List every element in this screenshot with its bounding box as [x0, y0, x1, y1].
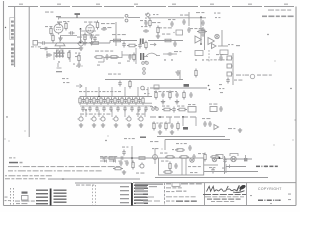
capacitor C17	[141, 26, 149, 33]
ot winding rows	[134, 185, 148, 205]
heater wire	[75, 182, 132, 184]
capacitor C6 bypass	[90, 34, 93, 40]
tone stack chain	[79, 96, 144, 105]
trimmer VR2	[215, 34, 219, 38]
node HT2	[200, 16, 202, 18]
component blob x245	[244, 155, 247, 161]
tube V1a	[54, 22, 63, 35]
text VR2	[214, 13, 220, 19]
cluster treble peaker resistor R7	[127, 44, 137, 47]
bypass switch arc	[144, 53, 160, 56]
row2 small marks	[81, 61, 130, 67]
output transformer bar	[131, 183, 133, 206]
wire main signal row1b	[110, 41, 137, 44]
Marshall logo script	[207, 184, 247, 192]
text above C9	[180, 15, 188, 16]
tube V1b	[86, 23, 94, 35]
capacitor C23 pi	[119, 156, 125, 159]
text mid labels	[112, 34, 126, 35]
text bias	[136, 173, 144, 174]
resistor R5 cathode V1b	[84, 33, 86, 42]
wire U1 out	[218, 45, 228, 47]
sheet outer border left edge	[3, 1, 5, 206]
text cluster x166	[162, 34, 170, 35]
revision box	[10, 18, 15, 40]
wire lower speaker	[226, 166, 246, 168]
field rows left	[135, 184, 163, 205]
capacitor C20 reservoir	[119, 160, 123, 166]
tone stack caps	[82, 97, 141, 103]
field small box	[172, 183, 180, 187]
cluster row2 x95-120	[94, 54, 119, 60]
op-amp U1a triangle	[195, 36, 201, 43]
pa caps	[169, 162, 178, 171]
text To PCB	[256, 166, 278, 168]
resistor R11 on bus	[129, 80, 131, 89]
resistor chain x158	[156, 26, 160, 39]
relay box K2	[173, 30, 182, 35]
capacitor C25 pa out	[223, 158, 226, 164]
field text mid row4	[166, 196, 196, 197]
tube V3a dense block	[55, 51, 65, 58]
components under switch bus	[153, 122, 179, 131]
tone pot grounds	[79, 123, 131, 127]
wire row2 step	[98, 48, 136, 64]
heater dashed col a	[92, 185, 94, 205]
capacitor C3b	[43, 47, 49, 50]
cluster pa right	[210, 155, 223, 159]
wire V3a left	[53, 52, 55, 60]
text ps row1	[5, 175, 52, 176]
capacitor C9	[182, 19, 185, 25]
text drawing number	[258, 200, 281, 202]
resistor R25 pi	[107, 157, 117, 160]
cluster x218 y54	[216, 54, 223, 61]
ot left rows	[120, 186, 129, 203]
grid stopper resistor R22	[165, 156, 175, 159]
wire HT2	[148, 17, 206, 19]
speaker symbol a	[231, 156, 236, 161]
border reference tick marks	[19, 4, 288, 5]
speaker jack vertical	[224, 156, 226, 174]
fx jack J3	[227, 64, 233, 68]
capacitor C4 bright	[93, 36, 96, 42]
title small marks a	[250, 194, 291, 201]
el84 heater b	[212, 157, 216, 161]
capacitor C12 smoothing	[201, 27, 204, 33]
title block divider 2	[204, 183, 206, 206]
logo address line1	[203, 194, 246, 195]
marks x221	[219, 84, 224, 93]
text pi labels	[122, 137, 146, 148]
tone row junction dots	[85, 96, 126, 111]
text rows x101	[101, 23, 115, 28]
wire vertical x222	[221, 30, 223, 46]
ps dashed vertical a	[10, 188, 12, 205]
text note top-right row2	[262, 16, 294, 18]
resistor R4 anode V1b	[96, 21, 98, 30]
grounds under switch bus	[158, 130, 174, 134]
sheet outer border bottom edge	[4, 205, 297, 207]
resistor R1b grid	[50, 27, 52, 36]
node left margin b	[6, 116, 7, 117]
wire lower rail V1	[40, 48, 80, 50]
text row2a	[95, 51, 113, 52]
text NOTE heading	[9, 162, 23, 164]
tone pots row	[77, 115, 131, 121]
node spare	[267, 34, 268, 35]
switch SW1 standby	[125, 14, 128, 21]
lamp circle x142	[141, 86, 145, 90]
svg-text:COPYRIGHT: COPYRIGHT	[258, 187, 282, 191]
ground x240	[238, 128, 242, 132]
wire HT rail top	[59, 17, 125, 19]
cluster x128 row2	[128, 53, 135, 62]
jack J1 input	[33, 41, 41, 46]
pot VR8 diamond	[146, 13, 159, 17]
sheet outer border right edge	[295, 7, 297, 206]
cap pair x205	[203, 121, 218, 130]
ground below V1a	[58, 36, 62, 40]
resistor R20 dropper	[113, 167, 123, 170]
diode D2	[100, 160, 107, 163]
pot VR1 gain	[77, 40, 83, 46]
resistor R8	[145, 41, 147, 50]
dark component master	[183, 127, 188, 130]
text above V1b	[84, 22, 97, 23]
wire pa bottom rail	[155, 177, 268, 179]
title block divider 1	[164, 183, 166, 206]
field text mid row3	[166, 191, 186, 193]
capacitor C8	[138, 43, 141, 49]
text x175 y54	[174, 51, 181, 52]
text note line1	[8, 166, 120, 167]
resistor R2 cathode	[52, 34, 54, 43]
tone pot texts	[80, 114, 110, 115]
capacitor C5	[101, 27, 107, 30]
capacitor C11 smoothing	[201, 20, 204, 26]
wire pi feed	[157, 136, 225, 138]
mains transformer bar	[50, 189, 52, 206]
pa double verticals	[182, 158, 186, 175]
corner mark	[270, 203, 271, 204]
capacitor C24 pi	[101, 156, 107, 159]
component cluster top x144	[144, 19, 151, 28]
logo address line2	[205, 196, 244, 197]
pa lower right marks	[209, 167, 226, 174]
node B junction	[80, 42, 82, 44]
wire stub node A	[81, 31, 97, 35]
cathode trapezoid	[55, 39, 65, 49]
text near R8	[140, 20, 146, 21]
node left margin a	[5, 27, 6, 28]
stray marks	[4, 60, 295, 149]
grounds under bus2	[161, 100, 179, 104]
diode D3	[109, 160, 116, 163]
wire HT2 drop	[200, 18, 202, 44]
resistor R24 pa	[204, 153, 206, 162]
pi vertical wire	[131, 146, 133, 165]
node mains	[62, 178, 64, 180]
resistor R3	[90, 42, 101, 45]
component row2 x78	[77, 54, 80, 69]
text fx labels row2	[234, 80, 242, 81]
resistor R21	[132, 161, 134, 170]
field text mid row5	[166, 201, 197, 202]
wire switch bus	[150, 116, 196, 118]
resistor R12 x195	[195, 69, 197, 78]
op-amp U2 triangle	[212, 44, 217, 49]
arrow mark x152	[150, 43, 156, 46]
resistor R26 pi	[137, 157, 147, 160]
node dots row2	[164, 59, 203, 60]
switch bank row	[150, 106, 158, 110]
text dot row x206	[206, 59, 228, 60]
component cluster x166	[163, 39, 177, 47]
logo address line4	[211, 201, 234, 202]
components under bus2	[155, 91, 193, 100]
bracket above speaker	[230, 154, 238, 157]
vertical wire x116	[115, 22, 117, 46]
connector bars x140 y38	[140, 39, 144, 45]
wire pi signal	[100, 157, 162, 159]
text under bus2	[154, 91, 177, 92]
sheet outer border top edge	[8, 6, 296, 8]
capacitor C7	[122, 42, 125, 48]
fx jack J2	[227, 56, 233, 60]
heater marks	[76, 185, 94, 186]
text R3 value	[90, 35, 99, 36]
ground rectifier	[122, 170, 126, 174]
field text mid row2	[166, 187, 182, 188]
pi right marks	[150, 141, 158, 149]
tone row2 bus	[80, 105, 152, 107]
text input label	[31, 46, 41, 47]
wire pa to sockets	[204, 164, 218, 166]
capacitor C10	[187, 27, 190, 33]
relay box K4	[220, 50, 228, 55]
tone stack feed wires	[86, 87, 148, 97]
resistor R1 anode	[65, 22, 67, 31]
anode tee mark	[57, 22, 62, 26]
fx jack J4	[227, 72, 233, 76]
ps switch box	[22, 196, 29, 201]
resistor R6	[112, 39, 123, 42]
arrow symbol left	[76, 84, 82, 88]
logo address line3	[207, 199, 241, 200]
text note top-right row1	[268, 10, 291, 11]
op-amp U1b triangle	[208, 38, 214, 45]
ps dash row1	[15, 201, 35, 202]
circle component left pa	[153, 155, 158, 160]
node HT rail label T	[56, 16, 61, 20]
wire row2 bus	[105, 79, 183, 81]
wire main signal row1	[46, 42, 110, 44]
pi cathode cap	[122, 150, 125, 156]
resistor R30	[68, 50, 70, 62]
cluster x178-186	[177, 106, 187, 111]
ps fuse resistor	[22, 192, 28, 194]
text above U1	[190, 28, 203, 29]
pi right vertical	[154, 148, 156, 164]
wire from switch to right	[128, 17, 140, 19]
jack tip mark	[226, 164, 230, 169]
heater dashed col b	[95, 185, 97, 205]
text near HT2	[196, 12, 204, 13]
node bus2 a	[208, 85, 210, 87]
cluster x230 y128	[228, 128, 235, 129]
capacitor C16 electrolytic	[176, 70, 180, 76]
vertical feed x180	[179, 70, 181, 80]
node right margin	[290, 88, 291, 89]
text row x158	[158, 27, 172, 28]
switch bus drop wires	[170, 117, 196, 126]
text gain label	[77, 37, 86, 38]
cluster x163-172	[162, 106, 176, 113]
node bus2 b	[209, 89, 211, 91]
ground C6	[89, 41, 93, 45]
text right of U2	[228, 44, 240, 46]
wire speaker	[225, 158, 253, 160]
capacitor C1 label text	[45, 12, 53, 13]
node V3a	[58, 61, 59, 62]
drawing number vertical text	[11, 44, 14, 66]
wire tone bus top	[80, 96, 152, 98]
marks right of SW1	[145, 14, 150, 19]
dashed column x209	[208, 50, 210, 62]
tone stack lower bus	[80, 102, 152, 104]
capacitor C3 input	[41, 41, 47, 44]
wire mains top	[48, 178, 140, 180]
wire vertical feed	[188, 12, 190, 26]
title block divider 3	[246, 183, 248, 206]
fx cluster small caps	[226, 78, 229, 84]
text note line2	[8, 170, 102, 171]
pa heater symbol	[190, 158, 194, 162]
title block top edge	[133, 182, 296, 184]
node pa ht	[219, 157, 221, 159]
ground V3a	[56, 63, 62, 72]
cluster x210-224	[209, 104, 223, 113]
dark bar send level	[184, 84, 190, 87]
ps dash row2	[16, 203, 27, 204]
diode D1 clipper	[202, 33, 205, 37]
bias pot VR7	[139, 162, 145, 168]
left margin strip divider	[14, 7, 16, 68]
text ps row2	[5, 178, 45, 179]
capacitor C21 reservoir	[125, 160, 129, 166]
ground VR1	[79, 46, 83, 50]
mains secondary text rows	[54, 190, 67, 203]
text rectifier labels	[100, 156, 117, 157]
node pi 2	[105, 140, 106, 141]
note small mark	[9, 157, 15, 158]
wire vertical x204	[204, 30, 206, 50]
capacitor C14a	[46, 51, 52, 58]
capacitor C22 pa	[192, 154, 195, 160]
relay box K3	[195, 51, 203, 56]
fx send bars	[140, 53, 144, 60]
small box x154	[154, 85, 159, 89]
relay box K1	[188, 104, 196, 112]
ps dashed vertical b	[13, 188, 15, 205]
small cluster x170 y20	[168, 19, 175, 27]
capacitor C18 row2	[163, 52, 177, 55]
text bus labels	[108, 74, 121, 75]
text pa row	[160, 153, 205, 155]
ground R5	[83, 41, 87, 45]
pa drive cluster	[172, 143, 192, 151]
tone text labels	[79, 91, 121, 92]
tone stack row2 caps	[81, 106, 147, 112]
ps left marks	[5, 197, 10, 202]
capacitor C2 coupling	[69, 31, 75, 34]
label T2 bold	[75, 13, 81, 18]
pa text	[161, 161, 201, 168]
text x205	[202, 118, 210, 119]
text under switch bus	[152, 123, 171, 124]
node switch bus	[159, 116, 184, 118]
tone chain verticals lower	[86, 110, 145, 117]
node A junction	[80, 28, 82, 30]
wire pa mid rail	[204, 171, 258, 173]
text V1a label	[45, 21, 69, 27]
pot VR6 presence	[137, 115, 143, 127]
wire row1 to V2	[148, 40, 183, 42]
inner frame vertical line	[28, 7, 30, 137]
resistor R9 feedback	[197, 30, 207, 33]
wire row2 bus2	[150, 87, 207, 89]
wire anode horiz	[60, 35, 77, 37]
small marks x63 y78	[62, 64, 80, 84]
text COPYRIGHT	[258, 187, 282, 191]
wire pa feedback top	[165, 140, 230, 151]
node pi junction	[131, 157, 133, 159]
revision box vertical text 7-60-02	[11, 21, 14, 39]
wire node A to B	[80, 29, 82, 43]
tube V1a bottom marks	[56, 50, 63, 53]
text top mid labels	[152, 22, 160, 23]
marks right V3a	[75, 53, 80, 58]
text presence	[136, 89, 149, 115]
capacitor C15 on bus	[118, 81, 121, 87]
text fx labels row	[236, 74, 272, 78]
grid stopper resistor R23	[179, 156, 189, 159]
pa resistors bottom	[163, 171, 197, 174]
switch SW2 fx	[142, 61, 149, 74]
node U2 junction	[200, 43, 202, 45]
fx jack chain vertical	[232, 53, 234, 85]
mains primary text rows	[36, 190, 48, 205]
field text mid row1	[166, 183, 202, 184]
power amp enclosure	[159, 158, 204, 175]
